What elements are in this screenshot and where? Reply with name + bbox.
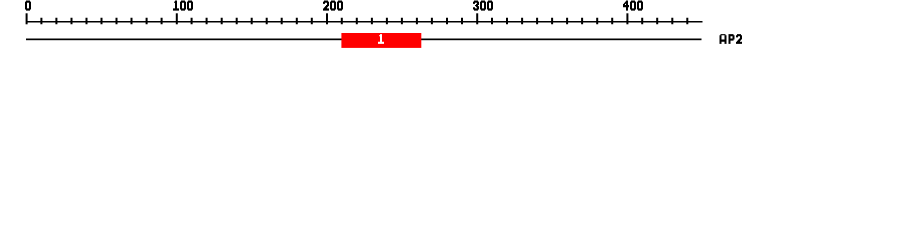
ruler scale label 100 [173, 1, 193, 11]
ruler major tick 400 [626, 13, 628, 24]
domain box 1 (AP2 domain) [341, 33, 421, 48]
ruler main horizontal line [26, 21, 703, 23]
ruler major tick 200 [326, 13, 328, 24]
protein name label AP2 [720, 34, 743, 44]
ruler major tick 100 [176, 13, 178, 24]
ruler scale label 0 [25, 1, 31, 11]
ruler scale label 300 [473, 1, 493, 11]
ruler major tick 0 [26, 13, 28, 24]
protein backbone line [26, 39, 702, 41]
domain box label 1 [378, 34, 384, 44]
ruler major tick 300 [476, 13, 478, 24]
ruler scale label 200 [323, 1, 343, 11]
ruler minor ticks every 10 units [40, 18, 688, 25]
ruler scale label 400 [623, 1, 643, 11]
